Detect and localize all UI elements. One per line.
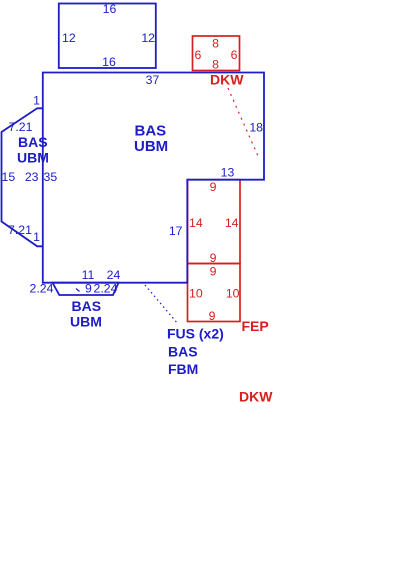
svg-text:UBM: UBM (17, 150, 49, 166)
svg-text:9: 9 (209, 309, 216, 323)
svg-text:16: 16 (103, 2, 117, 16)
svg-text:10: 10 (189, 287, 203, 301)
svg-text:BAS: BAS (18, 134, 48, 150)
svg-text:35: 35 (44, 170, 58, 184)
svg-text:FBM: FBM (168, 361, 198, 377)
svg-text:1: 1 (33, 94, 40, 108)
svg-text:FEP: FEP (242, 318, 269, 334)
svg-text:2.24: 2.24 (30, 282, 54, 296)
svg-text:16: 16 (102, 55, 116, 69)
svg-text:10: 10 (226, 287, 240, 301)
svg-text:17: 17 (169, 224, 183, 238)
svg-text:2.24: 2.24 (94, 282, 118, 296)
svg-text:8: 8 (212, 58, 219, 72)
svg-text:9: 9 (210, 251, 217, 265)
svg-text:15: 15 (2, 170, 16, 184)
svg-text:12: 12 (141, 31, 155, 45)
svg-text:9: 9 (210, 265, 217, 279)
svg-text:12: 12 (62, 31, 76, 45)
svg-text:BAS: BAS (168, 344, 198, 360)
svg-text:13: 13 (221, 166, 235, 180)
svg-text:BAS: BAS (135, 123, 167, 140)
svg-text:24: 24 (107, 268, 121, 282)
svg-text:9: 9 (210, 180, 217, 194)
svg-text:UBM: UBM (70, 314, 102, 330)
svg-text:6: 6 (195, 48, 202, 62)
svg-text:11: 11 (82, 268, 95, 282)
svg-text:DKW: DKW (210, 72, 244, 88)
svg-text:7.21: 7.21 (8, 223, 32, 237)
svg-text:23: 23 (25, 170, 39, 184)
svg-text:FUS (x2): FUS (x2) (167, 326, 224, 342)
svg-text:14: 14 (225, 216, 239, 230)
svg-text:UBM: UBM (134, 138, 168, 155)
svg-text:1: 1 (33, 230, 40, 244)
svg-text:9: 9 (85, 282, 92, 296)
svg-text:6: 6 (231, 48, 238, 62)
svg-text:37: 37 (146, 73, 160, 87)
svg-text:BAS: BAS (72, 298, 102, 314)
svg-text:8: 8 (212, 37, 219, 51)
svg-text:14: 14 (189, 216, 203, 230)
svg-text:18: 18 (249, 121, 263, 135)
svg-text:7.21: 7.21 (9, 120, 33, 134)
svg-text:DKW: DKW (239, 389, 273, 405)
